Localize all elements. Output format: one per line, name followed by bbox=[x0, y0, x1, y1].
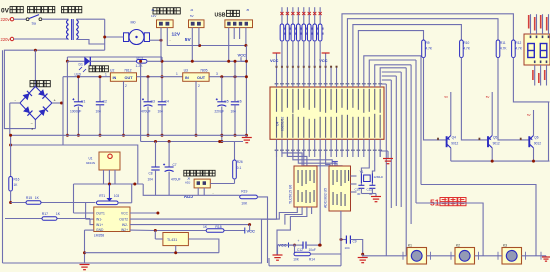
svg-text:K3: K3 bbox=[503, 244, 507, 248]
svg-text:3: 3 bbox=[216, 72, 218, 76]
svg-text:VCC: VCC bbox=[238, 53, 247, 58]
wire P1.2 to U6 bbox=[287, 151, 306, 166]
svg-text:12V: 12V bbox=[172, 31, 181, 37]
svg-text:470UF: 470UF bbox=[171, 178, 181, 182]
wire divider line bbox=[11, 202, 96, 204]
terminal 220v L bbox=[1, 17, 14, 22]
wire bridge plus up bbox=[62, 77, 64, 145]
wire U3 out bbox=[209, 72, 246, 78]
bus verticals down bbox=[386, 56, 421, 256]
svg-text:VCC: VCC bbox=[270, 58, 279, 63]
svg-text:12MHz: 12MHz bbox=[374, 175, 384, 179]
svg-text:-: - bbox=[170, 39, 171, 43]
svg-text:1: 1 bbox=[105, 73, 107, 77]
svg-text:0.1: 0.1 bbox=[237, 166, 242, 170]
svg-text:+: + bbox=[298, 239, 300, 243]
svg-text:C8: C8 bbox=[149, 172, 153, 176]
regulator U2 7812 bbox=[105, 69, 137, 137]
wire R19 right drop bbox=[257, 197, 267, 263]
svg-text:104: 104 bbox=[231, 110, 237, 114]
wire RST bbox=[319, 151, 322, 247]
svg-text:TLC5615 U6: TLC5615 U6 bbox=[289, 185, 293, 204]
wire R12 right bbox=[513, 58, 549, 102]
wire Q6 emitter bbox=[527, 110, 533, 136]
wire key row bbox=[363, 252, 546, 260]
svg-text:K1: K1 bbox=[408, 244, 412, 248]
svg-text:470UF: 470UF bbox=[141, 110, 151, 114]
LED D1 indicator bbox=[67, 57, 136, 77]
bridge rectifier D2-D5 bbox=[15, 87, 57, 120]
wire rail B bbox=[141, 140, 243, 143]
wire U5 stub right bbox=[351, 176, 357, 192]
resistor R16 bbox=[9, 134, 20, 204]
label rocker switch (船型开关) bbox=[28, 7, 55, 13]
wire OUT1 bbox=[74, 212, 94, 214]
resistor R9 4.7K bbox=[422, 40, 433, 58]
svg-text:D1: D1 bbox=[79, 63, 83, 67]
svg-text:Q4: Q4 bbox=[452, 136, 456, 140]
svg-text:RT1: RT1 bbox=[99, 194, 105, 198]
wire bus right drop bbox=[143, 184, 155, 195]
svg-text:1K: 1K bbox=[35, 196, 40, 200]
svg-text:IN: IN bbox=[185, 76, 189, 80]
resistor R19 bbox=[240, 189, 258, 205]
svg-text:VCC: VCC bbox=[121, 211, 129, 215]
wire bridge right out bbox=[52, 102, 63, 105]
wire P1.4 to U5 bbox=[298, 151, 337, 166]
DAC U6 TLC5615 bbox=[289, 166, 318, 207]
svg-text:ADJ: ADJ bbox=[185, 181, 191, 185]
wire J4 pin1 bbox=[191, 28, 194, 63]
resistor R12 4.7K bbox=[512, 40, 523, 58]
svg-text:C4: C4 bbox=[165, 100, 169, 104]
resistor R17 bbox=[42, 212, 61, 220]
svg-text:Sa: Sa bbox=[32, 22, 36, 26]
wire U5 to C9 bbox=[269, 211, 341, 266]
label ADJ bbox=[184, 194, 194, 199]
svg-text:C12: C12 bbox=[297, 248, 303, 252]
svg-text:U3: U3 bbox=[184, 69, 188, 73]
svg-text:1: 1 bbox=[176, 72, 178, 76]
resistor R10 4.7K bbox=[460, 40, 471, 58]
power port VCC reset bbox=[278, 242, 294, 247]
wire R9 to Q4 base bbox=[424, 58, 447, 140]
wire U2 out bbox=[137, 72, 183, 78]
label transformer (变压器) bbox=[62, 7, 82, 13]
wire rail B feed bbox=[139, 60, 142, 142]
label indicator (指示灯) bbox=[89, 66, 108, 72]
svg-text:9012: 9012 bbox=[451, 141, 458, 145]
svg-text:J5: J5 bbox=[246, 8, 250, 12]
svg-text:M0: M0 bbox=[131, 21, 136, 25]
label terminal J4 bbox=[190, 8, 194, 18]
wire IN1- feed bbox=[86, 203, 94, 220]
wire top rail H1 bbox=[67, 56, 162, 58]
wire switch to transformer primary top bbox=[42, 18, 68, 20]
svg-text:9012: 9012 bbox=[534, 141, 541, 145]
svg-text:220v: 220v bbox=[1, 37, 11, 42]
label 220V input (0V输入) bbox=[1, 7, 23, 15]
svg-text:4.7K: 4.7K bbox=[500, 47, 507, 51]
MCU pin numbers bbox=[275, 83, 382, 151]
potentiometer RT1 bbox=[97, 184, 132, 205]
svg-text:1K: 1K bbox=[56, 212, 61, 216]
svg-text:R18: R18 bbox=[215, 225, 221, 229]
label 12V bbox=[172, 31, 181, 37]
shunt TL431 bbox=[155, 231, 219, 253]
cap C8 104 bbox=[148, 142, 160, 196]
button K2 bbox=[455, 244, 475, 265]
cap C5 220UF bbox=[215, 77, 229, 143]
svg-text:10K: 10K bbox=[241, 202, 248, 206]
wire USB pin2 stub bbox=[233, 28, 235, 39]
svg-text:R26: R26 bbox=[237, 160, 243, 164]
crystal Y1 bbox=[360, 170, 384, 183]
svg-text:5V: 5V bbox=[486, 95, 490, 99]
wire RT1 up bbox=[131, 184, 133, 203]
svg-text:R12: R12 bbox=[515, 41, 521, 45]
svg-text:C9: C9 bbox=[353, 240, 357, 244]
svg-text:104: 104 bbox=[148, 178, 154, 182]
display digits bbox=[528, 44, 547, 58]
sensor U1 bbox=[86, 152, 120, 170]
svg-text:Q6: Q6 bbox=[534, 136, 538, 140]
ground at rail A end bbox=[242, 135, 252, 142]
svg-text:1K: 1K bbox=[203, 225, 208, 229]
USB connector J5 bbox=[225, 20, 253, 28]
wire P1.1 to U6 bbox=[282, 151, 302, 166]
wire P3.0 to U5 bbox=[326, 157, 330, 166]
wire 5V drop to rails bbox=[245, 46, 248, 137]
resistor R14 bbox=[293, 245, 341, 261]
svg-text:C3: C3 bbox=[151, 100, 155, 104]
svg-text:R9: R9 bbox=[426, 41, 430, 45]
wire R11 to Q6 base bbox=[498, 58, 529, 140]
svg-text:104: 104 bbox=[96, 110, 102, 114]
ground LM358 bbox=[80, 265, 90, 270]
svg-text:C7: C7 bbox=[173, 163, 177, 167]
svg-text:5V: 5V bbox=[444, 95, 448, 99]
cap C12 10uF bbox=[293, 239, 321, 252]
svg-text:R16: R16 bbox=[14, 178, 20, 182]
svg-text:Q5: Q5 bbox=[493, 136, 497, 140]
display DS1 bbox=[524, 34, 550, 65]
svg-text:4.7K: 4.7K bbox=[515, 47, 522, 51]
ground key row bbox=[542, 256, 550, 261]
wire secondary top bbox=[76, 18, 104, 20]
wire Q4 emitter bbox=[444, 92, 450, 136]
svg-text:12V: 12V bbox=[151, 14, 156, 18]
svg-text:VCC: VCC bbox=[247, 228, 256, 233]
power port VCC right bbox=[245, 228, 255, 234]
wire J3 pin2 bbox=[167, 28, 246, 47]
svg-text:IN1+: IN1+ bbox=[96, 223, 103, 227]
svg-text:IN1-: IN1- bbox=[96, 217, 102, 221]
cap C10 30p bbox=[355, 183, 365, 196]
svg-text:C5: C5 bbox=[224, 100, 228, 104]
wire OUT2 line bbox=[130, 207, 297, 219]
wire xtal gnd bbox=[361, 194, 381, 202]
wire Q5 emitter bbox=[486, 92, 492, 136]
display bottom pins bbox=[532, 65, 546, 86]
wire P1.5 to U5 bbox=[304, 151, 342, 166]
ground MCU pin20 bbox=[380, 151, 393, 164]
regulator U3 7805 bbox=[183, 69, 209, 137]
wire adj line bbox=[156, 192, 240, 196]
transformer T1 bbox=[67, 19, 79, 40]
label 51 heidianzi (51黑电子) bbox=[430, 198, 466, 208]
svg-text:R14: R14 bbox=[309, 257, 315, 261]
svg-text:10uF: 10uF bbox=[309, 248, 316, 252]
svg-text:OUT2: OUT2 bbox=[119, 217, 128, 221]
resistor R15 bbox=[26, 196, 41, 204]
svg-text:C2: C2 bbox=[103, 100, 107, 104]
svg-text:0V: 0V bbox=[1, 8, 10, 15]
svg-text:OUT1: OUT1 bbox=[96, 211, 105, 215]
wire P1.3 to U5 bbox=[293, 151, 332, 166]
wire L to switch bbox=[14, 18, 26, 20]
wire xtal connect bbox=[361, 157, 374, 174]
wire N to transformer primary bottom bbox=[14, 38, 68, 40]
label alligator output (鳄鱼夹输出) bbox=[184, 170, 215, 176]
wire U6 pin feeds bbox=[248, 207, 312, 255]
wire IN1+ feed bbox=[90, 219, 94, 225]
svg-text:220v: 220v bbox=[1, 17, 11, 22]
wire J4 pin2 bbox=[198, 28, 200, 46]
resistor R18 bbox=[203, 225, 224, 232]
svg-text:R15: R15 bbox=[26, 196, 32, 200]
cap C7 470UF bbox=[163, 142, 181, 196]
cap C2 104 bbox=[96, 75, 107, 137]
cap C4 104 bbox=[158, 100, 169, 137]
svg-text:7812: 7812 bbox=[124, 69, 132, 73]
svg-text:C1: C1 bbox=[81, 100, 85, 104]
button K3 bbox=[502, 244, 522, 265]
node bridge top feed bbox=[34, 49, 37, 52]
transistor Q4 bbox=[437, 136, 458, 148]
wire J3 pin1 bbox=[160, 28, 162, 62]
wire LM358 gnd bbox=[83, 230, 94, 263]
wire IN2- line bbox=[130, 224, 250, 226]
wire sensor frame bbox=[9, 144, 138, 185]
wire R10 to Q5 base bbox=[461, 58, 488, 140]
svg-text:C6: C6 bbox=[237, 100, 241, 104]
label 5V bbox=[185, 37, 192, 43]
cap C6 104 bbox=[231, 60, 242, 137]
wire bridge left drop bbox=[9, 103, 11, 135]
wire bottom loop bbox=[3, 219, 262, 263]
cap C9 104 bbox=[340, 236, 368, 263]
svg-text:R10: R10 bbox=[463, 41, 469, 45]
wire ref line bbox=[154, 229, 245, 232]
resistor R11 4.7K bbox=[496, 40, 507, 58]
svg-text:OUT: OUT bbox=[125, 76, 134, 80]
svg-text:USB: USB bbox=[215, 12, 226, 18]
wire P1.0 bbox=[262, 151, 277, 219]
wire motor left bbox=[103, 36, 123, 39]
wire U1 pins bbox=[104, 170, 116, 184]
svg-text:104: 104 bbox=[345, 246, 350, 250]
svg-text:LM358: LM358 bbox=[94, 234, 104, 238]
wire display drop right bbox=[548, 102, 550, 161]
transistor Q5 bbox=[479, 136, 500, 148]
svg-text:9Z24N: 9Z24N bbox=[86, 161, 95, 165]
wire J6 pins down bbox=[198, 188, 204, 195]
wire ground rail A bbox=[10, 134, 247, 136]
wires P2.7-P2.4 to digit resistors bbox=[342, 14, 513, 87]
terminal 220v N bbox=[1, 37, 14, 42]
wire IN2+ line bbox=[130, 229, 155, 231]
wire J6 right bbox=[210, 183, 234, 185]
terminal J6 bbox=[185, 177, 210, 188]
svg-text:IN2+: IN2+ bbox=[121, 228, 128, 232]
MCU top pin wires bbox=[276, 66, 338, 87]
wire key feed K1 bbox=[405, 255, 408, 257]
transistor Q6 bbox=[520, 136, 541, 148]
wire left border bbox=[2, 50, 4, 263]
op-amp U7 LM358 bbox=[94, 207, 130, 238]
svg-text:R13: R13 bbox=[137, 56, 143, 60]
wire USB pin3 stub bbox=[239, 28, 241, 39]
svg-text:10K: 10K bbox=[293, 257, 300, 261]
wire gnd run bbox=[85, 251, 219, 254]
power mark at U5 bbox=[332, 162, 347, 172]
svg-text:OUT: OUT bbox=[197, 76, 206, 80]
wire bridge top vertical bbox=[31, 50, 36, 86]
MCU U4 89C51/52 box bbox=[270, 87, 384, 139]
cap C1 1000UF bbox=[70, 75, 85, 137]
nested bus wires right of MCU bbox=[364, 56, 421, 87]
cap C3 470UF bbox=[141, 77, 155, 137]
resistor R13 bbox=[136, 56, 247, 68]
svg-text:R11: R11 bbox=[500, 41, 506, 45]
wire VCC pin stub bbox=[130, 212, 159, 215]
wire bridge left out bbox=[10, 102, 20, 104]
svg-text:30: 30 bbox=[357, 192, 361, 196]
svg-text:1.2K: 1.2K bbox=[136, 64, 144, 68]
svg-text:7805: 7805 bbox=[200, 69, 208, 73]
svg-text:104: 104 bbox=[158, 110, 164, 114]
svg-text:1000UF: 1000UF bbox=[70, 110, 81, 114]
wire secondary right drop bbox=[104, 19, 106, 50]
svg-text:-: - bbox=[213, 192, 214, 196]
MCU bottom pin stubs bbox=[277, 139, 381, 157]
svg-text:5V: 5V bbox=[185, 37, 192, 43]
wire USB pin1 bbox=[227, 28, 230, 63]
svg-text:J4: J4 bbox=[190, 8, 194, 12]
MCU pin name text bbox=[276, 89, 381, 138]
svg-text:220UF: 220UF bbox=[215, 110, 225, 114]
svg-text:GND: GND bbox=[96, 228, 104, 232]
svg-text:IN: IN bbox=[113, 76, 117, 80]
wire key feed K2 bbox=[416, 203, 483, 256]
svg-text:R19: R19 bbox=[241, 189, 247, 193]
power VCC at MCU pin31 EA bbox=[319, 53, 330, 67]
power port VCC at USB bbox=[238, 53, 247, 62]
svg-text:J3: J3 bbox=[151, 8, 155, 12]
svg-text:U2: U2 bbox=[110, 69, 114, 73]
wire motor right bbox=[149, 39, 162, 42]
ADC U5 ADC0832 bbox=[324, 166, 351, 211]
wire R17 line bbox=[5, 218, 90, 220]
svg-text:2: 2 bbox=[198, 84, 200, 88]
terminal J4 bbox=[189, 20, 205, 28]
wire AC to bridge top bbox=[4, 50, 104, 128]
svg-text:R17: R17 bbox=[42, 212, 48, 216]
svg-text:4.7K: 4.7K bbox=[463, 47, 470, 51]
wire key feed K3 bbox=[421, 185, 536, 256]
svg-text:5V: 5V bbox=[190, 14, 194, 18]
wire secondary bottom bbox=[76, 40, 104, 45]
ground reset bbox=[273, 245, 295, 260]
terminal J3 bbox=[157, 20, 174, 28]
cap C11 30p bbox=[367, 183, 376, 196]
wire bridge bottom vertical bbox=[31, 120, 36, 131]
display top pins bbox=[528, 14, 549, 63]
svg-text:2: 2 bbox=[125, 84, 127, 88]
svg-text:K2: K2 bbox=[456, 244, 460, 248]
wire USB pin4 bbox=[244, 28, 247, 47]
svg-text:9012: 9012 bbox=[493, 141, 500, 145]
svg-text:5V: 5V bbox=[527, 113, 531, 117]
svg-text:103: 103 bbox=[114, 194, 120, 198]
resistor network RP1-RP8 bbox=[280, 7, 323, 66]
label bridge rectifier (整流桥) bbox=[30, 81, 50, 87]
wire feedback bbox=[73, 184, 75, 213]
resistor R26 bbox=[233, 142, 243, 184]
label USB output (USB输出) bbox=[215, 8, 250, 18]
svg-text:ADC0832 U5: ADC0832 U5 bbox=[324, 188, 328, 208]
svg-text:IN2-: IN2- bbox=[122, 223, 128, 227]
power VCC at MCU pin40 bbox=[270, 53, 281, 67]
svg-text:4.7K: 4.7K bbox=[426, 47, 433, 51]
motor M0 bbox=[124, 21, 150, 45]
button K1 bbox=[407, 244, 427, 265]
wire rail IN bbox=[63, 76, 110, 78]
wire sensor bus bbox=[74, 183, 144, 186]
svg-text:TL431: TL431 bbox=[167, 238, 177, 242]
switch Sa bbox=[26, 15, 42, 26]
wire H1 left drop bbox=[66, 57, 69, 137]
wire H1 right drop bbox=[161, 57, 164, 102]
wire collector rail bbox=[451, 148, 550, 163]
label output terminal (输出端子) bbox=[151, 8, 180, 18]
